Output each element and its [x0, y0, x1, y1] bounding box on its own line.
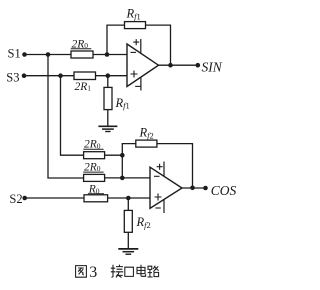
label 2R0 (row A) — [83, 139, 103, 151]
node S1 terminal — [22, 52, 27, 57]
glyph 路 — [148, 266, 159, 277]
wire S3 input line — [24, 75, 127, 77]
label 2R0 (row B) — [83, 161, 103, 173]
wire row B to op-amp U2 — [105, 177, 150, 179]
op-amp U1 — [127, 39, 159, 91]
svg-text:SIN: SIN — [202, 59, 223, 74]
label 2R0 (S1 row) — [71, 38, 92, 50]
resistor Rf2 to ground — [124, 210, 132, 232]
svg-text:S1: S1 — [8, 47, 21, 61]
glyph 接 — [111, 265, 123, 278]
resistor R0 (S2 row) — [84, 195, 108, 202]
wire Rf1 to ground — [107, 76, 109, 127]
resistor Rf2 feedback — [136, 140, 157, 147]
wire S2 input line — [25, 197, 150, 199]
node row B junction — [120, 176, 125, 181]
node SIN terminal — [196, 63, 201, 68]
glyph 图 — [76, 266, 87, 278]
wire row A to node — [105, 154, 123, 156]
node U1 output junction — [168, 63, 173, 68]
resistor Rf1 to ground — [104, 87, 112, 109]
node U2 non-inverting input — [126, 196, 131, 201]
node row A junction — [120, 153, 125, 158]
node U1 non-inverting input — [106, 73, 111, 78]
op-amp U2 — [150, 162, 182, 214]
caption: 图 3 接口电路 — [76, 264, 159, 281]
svg-text:S2: S2 — [9, 192, 22, 206]
node COS terminal — [203, 186, 208, 191]
wire S1 input line — [25, 54, 128, 56]
node S1 junction — [46, 52, 51, 57]
node U1 inverting input — [105, 52, 110, 57]
svg-text:COS: COS — [211, 183, 237, 198]
label R0 (S2 row) — [88, 184, 104, 196]
node S3 junction — [58, 73, 63, 78]
resistor 2R0 (row A) — [84, 152, 105, 159]
wire S3 drop to upper 2R0 — [61, 76, 84, 156]
wire feedback Rf1 right leg — [146, 25, 171, 65]
resistor 2R1 (S3 row) — [74, 72, 96, 80]
resistor 2R0 (S1 row) — [71, 51, 93, 58]
resistor Rf1 feedback — [125, 22, 146, 29]
svg-text:S3: S3 — [6, 71, 19, 85]
ground (under Rf2) — [118, 249, 138, 254]
wire S1 drop to lower 2R0 — [48, 55, 84, 179]
svg-text:3: 3 — [89, 264, 97, 281]
node S3 terminal — [22, 73, 27, 78]
wire feedback Rf2 right leg — [157, 144, 193, 188]
wire op-amp U1 output — [159, 64, 198, 66]
resistor 2R0 (row B) — [84, 174, 105, 181]
ground (under Rf1) — [98, 126, 117, 131]
glyph 电 — [137, 265, 146, 277]
node S2 terminal — [22, 196, 27, 201]
wire feedback Rf2 left leg — [122, 144, 136, 156]
wire node vertical — [121, 155, 123, 178]
wire feedback Rf1 left leg — [107, 25, 125, 54]
node U2 output junction — [190, 186, 195, 191]
wire Rf2 to ground — [127, 198, 129, 249]
glyph 口 — [125, 267, 134, 276]
wire op-amp U2 output — [182, 187, 206, 189]
